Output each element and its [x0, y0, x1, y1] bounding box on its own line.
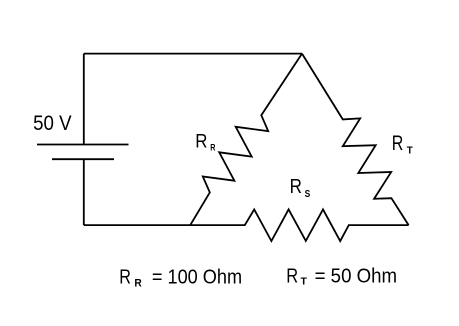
- wire: left vertical down to battery positive plate: [83, 54, 85, 145]
- svg-text:= 50 Ohm: = 50 Ohm: [315, 265, 398, 288]
- svg-text:R: R: [119, 265, 131, 288]
- wire: bottom rail from corner to bottom-left junction: [84, 224, 191, 226]
- svg-text:T: T: [301, 276, 308, 288]
- battery V1 (50 V): negative plate (short): [52, 158, 114, 160]
- wire: battery negative down to bottom-left corner: [83, 159, 85, 225]
- svg-text:= 100 Ohm: = 100 Ohm: [152, 265, 242, 288]
- wire: top rail from battery positive to apex node: [84, 53, 302, 55]
- svg-text:R: R: [392, 132, 404, 155]
- svg-text:T: T: [407, 145, 414, 157]
- svg-text:R: R: [286, 265, 298, 288]
- svg-text:R: R: [195, 130, 207, 152]
- battery V1 (50 V): positive plate (long): [37, 144, 129, 146]
- svg-text:50 V: 50 V: [33, 112, 72, 135]
- svg-text:R: R: [210, 143, 215, 154]
- resistor RR (left diagonal zigzag) with leads from apex to bottom-left junction: [190, 54, 302, 226]
- svg-text:R: R: [290, 176, 302, 198]
- resistor RS (bottom, horizontal zigzag) with leads: [190, 209, 408, 241]
- svg-text:S: S: [305, 188, 311, 200]
- svg-text:R: R: [134, 278, 141, 290]
- resistor RT (right diagonal zigzag) with leads from apex to bottom-right junction: [302, 54, 409, 226]
